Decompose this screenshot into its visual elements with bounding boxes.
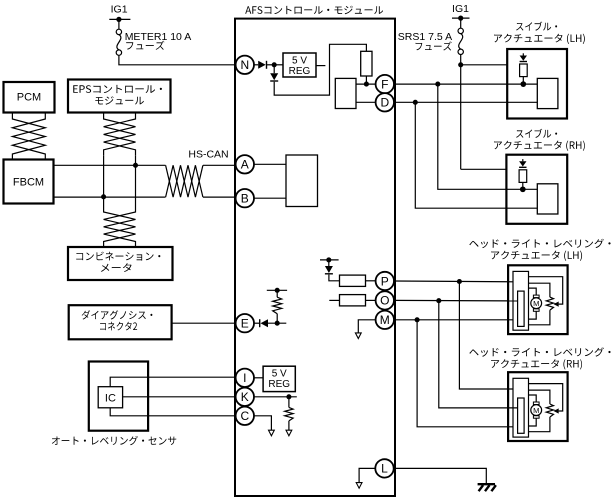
wire IG1 to fuse xyxy=(118,19,120,29)
wire fuse down xyxy=(460,55,462,170)
label fuse right (katakana) xyxy=(415,41,451,50)
svg-text:IC: IC xyxy=(105,392,116,404)
junction M branch xyxy=(415,317,420,322)
stub to resistor R4 xyxy=(329,299,339,301)
CAN transceiver block U3 xyxy=(286,155,318,207)
twisted pair HS-CAN xyxy=(166,165,203,197)
junction after D1 xyxy=(272,62,277,67)
swivel actuator LH label line2 xyxy=(494,34,585,44)
wire resistor to F branch (swivel RH) xyxy=(522,182,524,189)
fuse METER1 10 A xyxy=(116,29,121,34)
wire D3 to junction, stub xyxy=(268,322,286,324)
wire EPS pair left vertical xyxy=(103,155,105,205)
junction P branch xyxy=(457,279,462,284)
diagnosis connector 2 box xyxy=(69,305,172,339)
EPS label line1 xyxy=(73,85,162,93)
resistor (swivel LH) xyxy=(520,64,528,77)
svg-text:K: K xyxy=(241,390,249,404)
potentiometer bottom wire (RH) xyxy=(529,417,550,432)
wire M branch down to leveling RH xyxy=(417,320,513,427)
junction CAN-L / EPS xyxy=(101,194,106,199)
wire twist to node B xyxy=(203,196,236,198)
AFS control module box xyxy=(235,19,395,496)
motor M (LH) xyxy=(531,298,542,309)
wire node M to leveling LH xyxy=(394,319,513,321)
potentiometer top wire (RH) xyxy=(529,390,550,404)
motor top wire (LH) xyxy=(529,288,537,295)
wire O branch down to leveling RH xyxy=(439,301,518,408)
twisted pair PCM-FBCM xyxy=(12,113,45,160)
svg-text:METER1 10 A: METER1 10 A xyxy=(125,31,192,43)
resistor R4 xyxy=(340,295,366,306)
wire junction up to resistor R2 xyxy=(276,314,278,324)
wire junction to diode D4 xyxy=(328,260,330,266)
node I xyxy=(236,369,254,387)
ground arrow (C path) xyxy=(269,430,275,436)
wire diode to 5V REG1 xyxy=(267,64,283,66)
wire node P to leveling LH xyxy=(394,280,513,283)
diode D1 (from N) xyxy=(258,61,266,69)
wiper feed wire (RH) xyxy=(529,384,563,411)
junction on IG1 left bus xyxy=(116,17,121,22)
node C xyxy=(236,407,254,425)
5V REG1 output stub xyxy=(316,65,325,67)
svg-text:B: B xyxy=(241,192,249,206)
wire resistor to F wire (swivel LH) xyxy=(522,77,524,85)
svg-text:M: M xyxy=(533,406,539,415)
wire F branch down to swivel RH xyxy=(438,84,538,189)
junction CAN-H / EPS xyxy=(133,163,138,168)
svg-text:5 V: 5 V xyxy=(272,369,287,380)
diagnosis label line1 xyxy=(82,310,153,319)
svg-text:O: O xyxy=(380,294,389,308)
label fuse (katakana) xyxy=(126,41,164,50)
svg-text:A: A xyxy=(241,158,249,172)
potentiometer zigzag (LH) xyxy=(546,297,553,310)
headlight leveling actuator (RH) box xyxy=(508,372,567,441)
junction (swivel LH) xyxy=(520,81,526,87)
diode D2 (down) xyxy=(270,73,278,80)
svg-text:C: C xyxy=(240,409,249,423)
stub above diode (swivel RH) xyxy=(522,159,524,161)
wire K junction down xyxy=(288,397,290,408)
svg-text:I: I xyxy=(243,371,246,385)
twisted pair EPS down xyxy=(104,113,136,156)
svg-text:5 V: 5 V xyxy=(292,55,307,66)
resistor R3 xyxy=(340,275,366,286)
PCM box xyxy=(4,82,55,113)
internal supply stub (P path) xyxy=(320,259,339,261)
junction K path xyxy=(286,394,291,399)
wire D4 to resistor R3 xyxy=(329,275,340,281)
motor M (RH) xyxy=(531,405,542,416)
junction D branch xyxy=(413,100,418,105)
auto leveling sensor box xyxy=(89,362,148,431)
5V REG2 box xyxy=(263,366,295,391)
svg-text:IG1: IG1 xyxy=(111,4,128,16)
node A xyxy=(236,155,254,173)
svg-text:M: M xyxy=(380,313,390,327)
svg-text:E: E xyxy=(241,317,249,331)
wire diagnosis to node E xyxy=(172,322,236,324)
svg-text:REG: REG xyxy=(289,66,311,77)
motor block (swivel RH) xyxy=(537,184,558,214)
wire fuse branch to swivel RH xyxy=(461,168,507,170)
chassis ground xyxy=(478,483,495,485)
diode D3 (toward E) xyxy=(261,319,269,327)
headlight leveling LH label line2 xyxy=(491,251,582,261)
motor bottom wire (LH) xyxy=(529,311,537,319)
junction P supply xyxy=(326,257,331,262)
junction (swivel RH) xyxy=(520,186,526,192)
driver block U2 xyxy=(335,78,356,108)
wire node N to diode xyxy=(254,64,258,66)
headlight leveling LH label line1 xyxy=(469,239,610,248)
ground arrow (K path) xyxy=(286,430,292,436)
wire IG1 to fuse SRS1 xyxy=(460,18,462,28)
svg-text:SRS1 7.5 A: SRS1 7.5 A xyxy=(398,31,452,43)
potentiometer bottom wire (LH) xyxy=(529,310,550,325)
motor top wire (RH) xyxy=(529,395,537,402)
ground arrow (L path) xyxy=(356,483,362,489)
node P xyxy=(376,272,394,290)
wire R1 bottom to F net xyxy=(365,76,367,84)
resistor (swivel RH) xyxy=(519,170,527,183)
headlight leveling RH label line2 xyxy=(491,359,582,369)
FBCM box xyxy=(4,160,54,204)
wire R3 to node P xyxy=(366,280,376,282)
internal supply stub (E path) xyxy=(267,289,287,291)
wire U2 to node D xyxy=(356,101,376,103)
motor terminal bottom (RH) xyxy=(533,416,539,419)
twisted pair to combination meter xyxy=(104,206,136,248)
node K xyxy=(236,388,254,406)
headlight leveling RH label line1 xyxy=(469,347,610,356)
svg-text:P: P xyxy=(381,274,389,288)
IG1 left bus bar xyxy=(109,18,130,20)
potentiometer top wire (LH) xyxy=(529,283,550,297)
svg-text:FBCM: FBCM xyxy=(13,177,44,189)
svg-text:D: D xyxy=(380,96,389,110)
wire U2 to node F xyxy=(356,83,376,85)
IG1 right bus bar xyxy=(452,17,470,19)
potentiometer zigzag (RH) xyxy=(546,404,553,417)
node L xyxy=(375,459,393,477)
IC box xyxy=(98,387,122,408)
headlight leveling actuator (LH) box xyxy=(508,265,567,334)
junction R2 top xyxy=(275,288,280,293)
junction E path xyxy=(275,321,280,326)
node O xyxy=(376,291,394,309)
svg-text:PCM: PCM xyxy=(17,92,41,104)
wire fuse branch to swivel LH xyxy=(461,64,508,66)
ground arrow (M path) xyxy=(355,333,361,339)
wire node A to CAN block xyxy=(254,163,286,165)
wire node C to internal ground xyxy=(254,416,271,430)
diode (swivel LH) xyxy=(520,56,527,61)
combination meter box xyxy=(68,247,173,280)
wire CAN-L FBCM to twist xyxy=(54,196,166,198)
auto leveling sensor label xyxy=(52,436,176,445)
wire node B to CAN block xyxy=(254,197,286,199)
position sensor block (RH) xyxy=(518,398,525,433)
diode (swivel RH) xyxy=(519,161,526,166)
wire node D to swivel LH xyxy=(394,101,537,103)
svg-text:IG1: IG1 xyxy=(452,3,469,15)
potentiometer wiper arrow (RH) xyxy=(554,408,559,413)
swivel actuator LH box xyxy=(507,49,567,119)
wire node L to chassis ground xyxy=(394,468,486,483)
motor terminal bottom (LH) xyxy=(533,309,539,312)
5V REG1 box xyxy=(283,53,316,77)
wire sensor to node I xyxy=(110,377,236,387)
swivel actuator LH label line1 xyxy=(516,22,557,31)
wire D2 to resistor R1 top xyxy=(274,44,366,95)
wire node K with stub xyxy=(254,396,297,398)
svg-text:REG: REG xyxy=(268,379,290,390)
wire EPS pair right vertical xyxy=(135,155,137,205)
potentiometer wiper arrow (LH) xyxy=(554,302,559,307)
EPS control module box xyxy=(68,80,171,113)
wire CAN-H FBCM to twist xyxy=(54,164,166,166)
node M xyxy=(376,311,394,329)
wiper feed wire (LH) xyxy=(529,277,563,304)
node E xyxy=(236,314,254,332)
wire node F to swivel LH xyxy=(394,83,537,85)
swivel actuator RH label line1 xyxy=(516,129,557,138)
swivel actuator RH label line2 xyxy=(494,141,585,151)
EPS label line2 xyxy=(95,96,144,105)
position sensor block (LH) xyxy=(518,291,525,326)
junction O branch xyxy=(436,298,441,303)
wire fuse to node N xyxy=(119,55,236,65)
node B xyxy=(236,189,254,207)
wire node E to diode D3 xyxy=(254,322,260,324)
resistor R5 zigzag xyxy=(285,407,293,421)
wire D branch down to swivel RH xyxy=(415,102,537,208)
node D xyxy=(376,93,394,111)
diode D4 (down) xyxy=(325,266,333,273)
motor bottom wire (RH) xyxy=(529,418,537,426)
wire R5 to ground arrow xyxy=(288,421,290,430)
junction R1/F wire xyxy=(364,82,369,87)
wire R2 top xyxy=(276,290,278,297)
wire R4 to node O xyxy=(366,299,376,301)
swivel actuator RH box xyxy=(506,155,567,224)
wire sensor to node C xyxy=(110,408,236,416)
svg-text:HS-CAN: HS-CAN xyxy=(188,149,228,161)
stub above diode (swivel LH) xyxy=(522,53,524,55)
wire node O to leveling LH xyxy=(394,299,518,302)
node F xyxy=(376,75,394,93)
motor terminal top (RH) xyxy=(533,402,539,405)
combination meter label line1 xyxy=(76,252,160,261)
AFS module title xyxy=(245,6,383,15)
svg-text:M: M xyxy=(533,299,539,308)
junction on IG1 right bus xyxy=(458,16,463,21)
control block (RH) xyxy=(513,378,529,437)
junction fuse to swivel LH xyxy=(458,62,463,67)
wire twist to node A xyxy=(203,164,236,166)
wire node I to 5V REG2 xyxy=(254,377,263,379)
motor block (swivel LH) xyxy=(537,78,558,108)
wire junction down to diode D2 xyxy=(273,65,275,73)
node N xyxy=(236,56,254,74)
svg-text:L: L xyxy=(381,462,388,476)
svg-text:N: N xyxy=(240,58,249,72)
resistor R2 zigzag xyxy=(273,297,282,314)
wire node M to internal ground xyxy=(358,320,376,333)
wire node L to internal ground xyxy=(359,468,376,482)
motor terminal top (LH) xyxy=(533,295,539,298)
combination meter label line2 xyxy=(101,263,132,272)
control block (LH) xyxy=(513,271,529,330)
wire sensor to node K xyxy=(123,396,236,398)
resistor R1 xyxy=(361,51,372,76)
junction F branch xyxy=(435,82,440,87)
svg-text:F: F xyxy=(381,77,388,91)
fuse SRS1 7.5 A xyxy=(458,28,463,33)
diagnosis label line2 xyxy=(100,322,137,331)
wire P branch down to leveling RH xyxy=(459,282,513,390)
